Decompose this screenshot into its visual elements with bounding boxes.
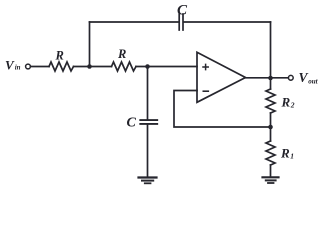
svg-text:R: R — [117, 47, 126, 61]
svg-text:R: R — [55, 49, 64, 63]
svg-text:1: 1 — [290, 152, 294, 161]
svg-text:in: in — [15, 64, 21, 72]
svg-text:V: V — [5, 58, 15, 73]
svg-text:2: 2 — [290, 101, 295, 110]
svg-text:R: R — [280, 146, 290, 161]
svg-text:V: V — [299, 70, 309, 85]
svg-text:C: C — [177, 3, 188, 19]
svg-text:out: out — [308, 78, 318, 86]
svg-text:R: R — [281, 95, 291, 110]
svg-text:C: C — [127, 116, 137, 131]
